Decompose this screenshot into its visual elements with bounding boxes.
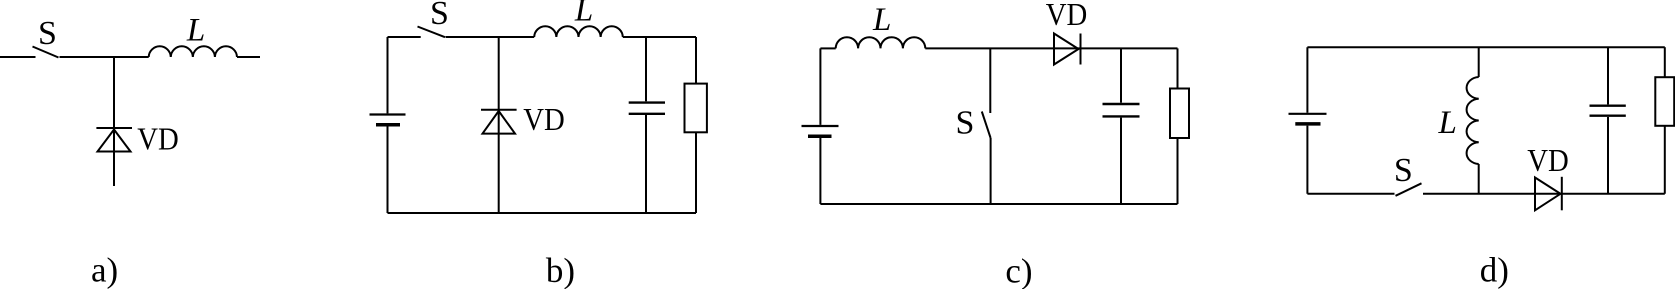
wire <box>388 212 697 214</box>
capacitor <box>1103 104 1140 116</box>
switch S <box>33 47 59 58</box>
switch S <box>418 27 446 38</box>
wire <box>1607 117 1609 194</box>
svg-text:VD: VD <box>1527 142 1569 178</box>
svg-text:d): d) <box>1480 251 1509 289</box>
battery <box>802 126 839 136</box>
switch S <box>1396 183 1422 196</box>
switch S <box>982 112 991 139</box>
resistor <box>1655 77 1674 126</box>
inductor L <box>836 37 926 48</box>
wire <box>695 37 697 84</box>
wire <box>819 138 821 204</box>
wire <box>237 56 260 58</box>
svg-text:b): b) <box>546 251 575 289</box>
svg-text:VD: VD <box>523 101 565 137</box>
wire <box>990 138 992 204</box>
wire <box>623 36 696 38</box>
wire <box>1120 48 1122 102</box>
wire <box>113 57 115 186</box>
wire <box>645 115 647 213</box>
wire <box>1307 193 1394 195</box>
svg-text:a): a) <box>91 251 118 289</box>
wire <box>1478 47 1480 77</box>
svg-text:S: S <box>430 0 449 32</box>
wire <box>1307 46 1664 48</box>
wire <box>1664 47 1666 77</box>
diode VD <box>1054 34 1081 65</box>
resistor <box>685 84 707 133</box>
wire <box>1306 47 1308 113</box>
wire <box>1478 164 1480 194</box>
wire <box>925 47 1177 49</box>
capacitor <box>1590 106 1626 116</box>
wire <box>1607 47 1609 104</box>
resistor <box>1170 89 1189 139</box>
wire <box>498 37 500 213</box>
wire <box>0 56 36 58</box>
wire <box>1177 48 1179 88</box>
wire <box>1664 126 1666 194</box>
inductor L <box>149 46 237 57</box>
svg-text:S: S <box>1394 152 1413 189</box>
svg-text:S: S <box>38 15 57 52</box>
wire <box>645 37 647 101</box>
battery <box>370 115 406 125</box>
wire <box>1120 118 1122 204</box>
svg-text:L: L <box>1438 105 1457 141</box>
wire <box>387 126 389 213</box>
wire <box>695 132 697 213</box>
svg-text:c): c) <box>1005 251 1032 289</box>
svg-text:L: L <box>186 12 205 48</box>
diode VD <box>96 128 132 152</box>
wire <box>820 203 1177 205</box>
svg-text:VD: VD <box>137 121 179 157</box>
wire <box>388 36 421 38</box>
battery <box>1289 114 1327 124</box>
wire <box>820 47 835 49</box>
wire <box>819 48 821 125</box>
wire <box>60 56 149 58</box>
svg-text:L: L <box>872 2 891 38</box>
inductor L <box>534 26 623 37</box>
wire <box>387 37 389 113</box>
svg-text:L: L <box>574 0 593 28</box>
wire <box>989 48 991 113</box>
capacitor <box>629 103 665 114</box>
wire <box>1423 193 1665 195</box>
svg-text:VD: VD <box>1046 0 1088 32</box>
diode VD <box>1535 177 1562 211</box>
svg-text:S: S <box>956 104 975 141</box>
diode VD <box>481 110 517 134</box>
wire <box>1177 138 1179 204</box>
wire <box>446 36 535 38</box>
inductor L <box>1467 77 1479 164</box>
wire <box>1306 126 1308 194</box>
